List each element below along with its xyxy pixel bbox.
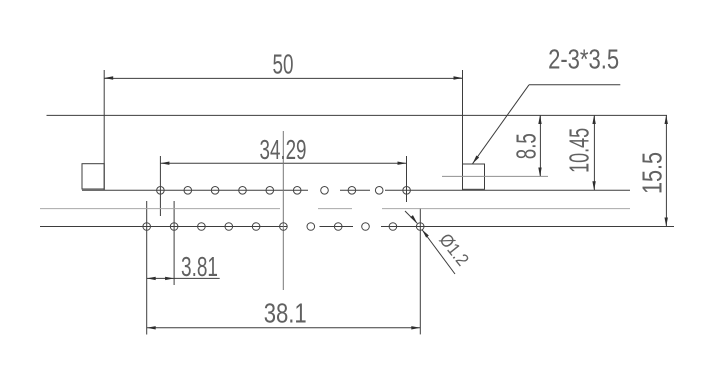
svg-text:50: 50 (273, 49, 294, 80)
svg-text:15.5: 15.5 (637, 152, 668, 194)
svg-text:2-3*3.5: 2-3*3.5 (548, 44, 619, 75)
svg-text:34.29: 34.29 (260, 134, 307, 165)
svg-text:8.5: 8.5 (511, 133, 542, 159)
svg-text:3.81: 3.81 (181, 251, 218, 282)
svg-text:10.45: 10.45 (564, 128, 595, 173)
svg-text:38.1: 38.1 (264, 298, 307, 329)
